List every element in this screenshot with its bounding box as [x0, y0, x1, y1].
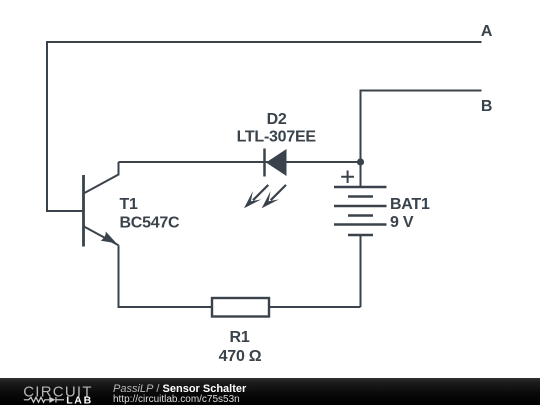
led D2 — [244, 149, 287, 209]
wire node B rail — [361, 90, 482, 92]
junction node — [357, 158, 364, 165]
svg-text:A: A — [481, 23, 493, 40]
wire emitter lead — [118, 245, 120, 308]
wire battery top lead — [360, 162, 362, 187]
svg-text:BC547C: BC547C — [120, 214, 181, 231]
svg-text:D2: D2 — [267, 111, 287, 128]
logo schematic squiggle — [24, 397, 64, 403]
svg-text:T1: T1 — [120, 196, 139, 213]
svg-text:http://circuitlab.com/c75s53n: http://circuitlab.com/c75s53n — [113, 394, 240, 405]
battery BAT1 — [334, 171, 387, 236]
svg-text:LAB: LAB — [66, 394, 93, 405]
svg-text:9 V: 9 V — [390, 214, 414, 231]
wire bottom rail — [119, 306, 361, 308]
svg-text:B: B — [481, 98, 492, 115]
wire left vertical — [46, 41, 48, 211]
svg-text:LTL-307EE: LTL-307EE — [237, 129, 317, 146]
svg-text:BAT1: BAT1 — [390, 196, 430, 213]
wire B vertical — [360, 90, 362, 163]
wire LED to junction — [264, 161, 361, 163]
resistor R1 — [212, 298, 269, 317]
svg-text:470 Ω: 470 Ω — [219, 348, 262, 365]
wire collector to LED — [119, 161, 266, 163]
transistor T1 — [84, 162, 119, 247]
footer bar — [0, 378, 540, 405]
wire battery bottom lead — [360, 235, 362, 307]
wire base lead — [46, 210, 84, 212]
wire node A rail — [47, 41, 482, 43]
svg-text:R1: R1 — [230, 329, 250, 346]
